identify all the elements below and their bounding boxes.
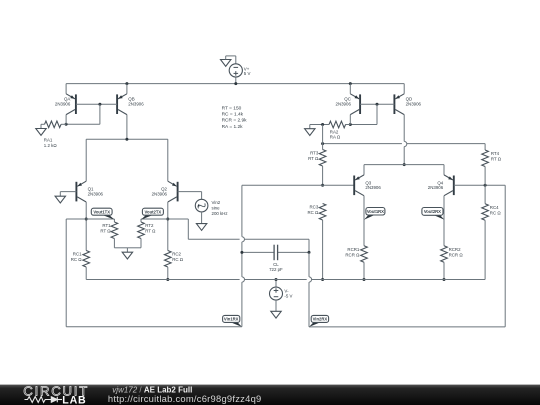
svg-text:RC1: RC1	[73, 252, 82, 257]
wire QA collector	[65, 115, 67, 125]
wire Vin1RX vertical with hops	[241, 185, 243, 236]
svg-text:RC Ω: RC Ω	[490, 210, 502, 215]
svg-text:Vout2TX: Vout2TX	[145, 210, 162, 215]
wire Q1 base	[60, 191, 76, 193]
wire Q3 base	[242, 184, 354, 186]
wire Q2 base	[178, 191, 202, 193]
capacitor CL 722pF	[240, 245, 310, 272]
svg-text:RT Ω: RT Ω	[308, 156, 319, 161]
svg-text:RC = 1.4k: RC = 1.4k	[222, 112, 244, 118]
svg-text:Vin1RX: Vin1RX	[224, 317, 239, 322]
svg-text:sine: sine	[212, 205, 221, 210]
svg-text:Vin2: Vin2	[212, 200, 221, 205]
transistor Q4 2N3906	[428, 175, 454, 196]
svg-text:2N3906: 2N3906	[336, 101, 352, 106]
flag Vin1RX	[223, 315, 242, 327]
svg-text:RT Ω: RT Ω	[100, 229, 111, 234]
wire QD collector with hop	[403, 115, 405, 142]
wire QC collector	[349, 115, 351, 125]
wire Q4 collector node	[443, 196, 445, 246]
wire Q2 collector node	[167, 202, 169, 251]
svg-text:RT = 150: RT = 150	[222, 105, 242, 111]
svg-text:2N3906: 2N3906	[152, 191, 168, 196]
ground for V-	[275, 300, 277, 311]
wire Vin2RX vertical with hop	[308, 252, 310, 277]
svg-text:RC4: RC4	[490, 205, 499, 210]
svg-text:http://circuitlab.com/c6r98g9f: http://circuitlab.com/c6r98g9fzz4q9	[108, 393, 262, 404]
svg-text:RCR Ω: RCR Ω	[345, 252, 360, 257]
resistor RCR1	[345, 246, 367, 281]
wire QA-QB base link	[76, 103, 117, 105]
wire Vout1TX node link	[66, 218, 114, 220]
svg-text:722 pF: 722 pF	[269, 267, 283, 272]
resistor RT1	[100, 219, 127, 248]
svg-text:RC Ω: RC Ω	[307, 210, 319, 215]
svg-text:RT1: RT1	[102, 223, 111, 228]
power source V- -5V	[270, 278, 293, 300]
resistor RT2	[127, 219, 156, 248]
wire top supply rail	[66, 83, 404, 85]
svg-text:Vout2RX: Vout2RX	[424, 209, 441, 214]
transistor QC 2N3906	[336, 82, 361, 115]
node dot V+ on rail	[234, 82, 237, 85]
svg-text:RCR Ω: RCR Ω	[449, 252, 464, 257]
ground for RT1-RT2	[126, 248, 128, 252]
wire Q3-Q4 emitter rail	[364, 164, 444, 166]
ground for RA2	[309, 125, 311, 129]
resistor RT4	[482, 144, 502, 186]
resistor RC3	[307, 204, 325, 282]
wire Q4 base	[454, 184, 505, 186]
transistor Q2 2N3906	[152, 181, 178, 202]
wire QC diode connection	[376, 104, 378, 124]
svg-text:RC2: RC2	[172, 252, 181, 257]
wire Q1-Q2 emitter feed	[86, 138, 168, 140]
flag Vout2RX	[422, 208, 445, 220]
svg-text:Vin2RX: Vin2RX	[313, 317, 328, 322]
svg-text:RC Ω: RC Ω	[71, 257, 83, 262]
svg-text:RT2: RT2	[145, 223, 154, 228]
node dot RA2-RT3	[321, 123, 324, 126]
wire QC-QD base link	[360, 103, 394, 105]
transistor QB 2N3906	[117, 82, 144, 114]
resistor RC4	[482, 185, 502, 279]
svg-text:RCR2: RCR2	[449, 247, 462, 252]
ground for RA1	[40, 124, 42, 128]
svg-text:RT3: RT3	[310, 151, 319, 156]
svg-text:RCR1: RCR1	[347, 247, 360, 252]
svg-text:1.2 kΩ: 1.2 kΩ	[44, 143, 58, 148]
wire QA diode connection	[99, 104, 101, 124]
svg-text:LAB: LAB	[62, 394, 86, 405]
footer bar	[0, 385, 540, 405]
svg-text:200 kHz: 200 kHz	[212, 211, 228, 216]
svg-text:Vout1RX: Vout1RX	[367, 209, 384, 214]
flag Vout2TX	[141, 208, 164, 220]
svg-text:-5 V: -5 V	[284, 293, 292, 298]
wire Q1 collector node	[85, 202, 87, 251]
wire RT3-RT4 link	[323, 143, 402, 145]
svg-text:RT Ω: RT Ω	[145, 229, 156, 234]
svg-text:2N3906: 2N3906	[55, 101, 71, 106]
svg-text:2N3906: 2N3906	[428, 185, 444, 190]
wire Q3 collector node	[363, 196, 365, 246]
flag Vout1TX	[91, 208, 114, 220]
svg-text:RT Ω: RT Ω	[491, 157, 502, 162]
svg-text:RCR = 2.9k: RCR = 2.9k	[222, 118, 248, 124]
flag Vout1RX	[364, 208, 385, 220]
CircuitLab logo resistor-diode glyph	[25, 397, 63, 403]
svg-text:RT4: RT4	[491, 151, 500, 156]
resistor RCR2	[441, 246, 464, 281]
transistor QD 2N3906	[394, 84, 421, 115]
wire bottom V- rail	[86, 279, 239, 281]
svg-text:2N3906: 2N3906	[128, 101, 144, 106]
resistor RC1	[71, 251, 90, 280]
transistor Q1 2N3906	[76, 181, 103, 202]
source Vin2 sine 200kHz	[195, 199, 227, 216]
svg-text:5 V: 5 V	[244, 71, 251, 76]
svg-text:RC Ω: RC Ω	[172, 257, 184, 262]
transistor Q3 2N3906	[354, 175, 381, 196]
ground for Q1 base	[55, 196, 65, 203]
svg-text:Vout1TX: Vout1TX	[93, 210, 110, 215]
ground for V+	[221, 60, 231, 67]
resistor RA2	[310, 121, 351, 139]
transistor QA 2N3906	[55, 84, 76, 115]
wire QB collector	[126, 115, 128, 140]
power source V+ 5V	[226, 56, 251, 84]
svg-text:RC3: RC3	[310, 205, 319, 210]
svg-text:2N3906: 2N3906	[406, 101, 422, 106]
flag Vin2RX	[309, 315, 329, 327]
resistor RA1 1.2 kOhm	[41, 121, 66, 148]
svg-text:2N3906: 2N3906	[88, 191, 104, 196]
wire Vin2RX run	[309, 326, 505, 328]
resistor RT3	[308, 125, 326, 187]
svg-text:RA Ω: RA Ω	[330, 135, 341, 140]
ground for Vin2	[201, 212, 203, 224]
wire Vin1RX run	[66, 326, 242, 328]
svg-text:RA = 1.2k: RA = 1.2k	[222, 124, 244, 130]
wire Vout2TX to cap	[141, 218, 188, 220]
svg-text:2N3906: 2N3906	[365, 185, 381, 190]
resistor RC2	[165, 251, 184, 281]
